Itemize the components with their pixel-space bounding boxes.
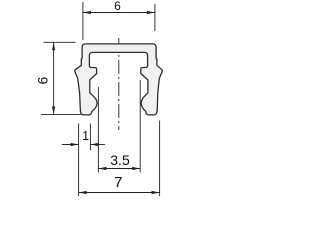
dim 1 left arrowhead bbox=[71, 143, 79, 146]
dim 3.5 (inner channel width) extension lines bbox=[98, 80, 140, 173]
dim 7 (overall width) right extension line bbox=[159, 121, 161, 197]
dim 7 dimension line bbox=[79, 192, 160, 194]
svg-text:1: 1 bbox=[82, 129, 89, 143]
dim 3.5 dimension line bbox=[98, 168, 140, 170]
dim 6 (left height) dimension line bbox=[53, 42, 55, 114]
svg-text:7: 7 bbox=[114, 174, 122, 191]
dim 7 left arrowhead bbox=[79, 191, 87, 194]
centerline (vertical dash-dot axis of profile) bbox=[118, 38, 120, 130]
dim 1 right arrowhead bbox=[90, 143, 98, 146]
dim 6 (top width) right arrowhead bbox=[147, 11, 155, 14]
dim 3.5 right arrowhead bbox=[132, 167, 140, 170]
svg-text:3.5: 3.5 bbox=[110, 152, 130, 168]
svg-text:6: 6 bbox=[114, 0, 121, 13]
dim 1 (leg wall thickness) extension lines bbox=[79, 124, 91, 197]
dim 6 (top width) left arrowhead bbox=[83, 11, 91, 14]
dim 3.5 left arrowhead bbox=[98, 167, 106, 170]
profile outline (cover-cap cross-section with two barbed snap-in legs) bbox=[75, 44, 163, 115]
dim 6 (top width) dimension line bbox=[83, 12, 155, 14]
dim 1 dimension line (outside arrows) bbox=[62, 144, 105, 146]
svg-text:6: 6 bbox=[35, 76, 51, 84]
dim 7 right arrowhead bbox=[152, 191, 160, 194]
dim 6 (top width) extension lines bbox=[83, 2, 155, 40]
dim 6 (left height) extension lines bbox=[41, 42, 81, 114]
dim 6 (left height) top arrowhead bbox=[52, 42, 55, 50]
dim 6 (left height) bottom arrowhead bbox=[52, 106, 55, 114]
